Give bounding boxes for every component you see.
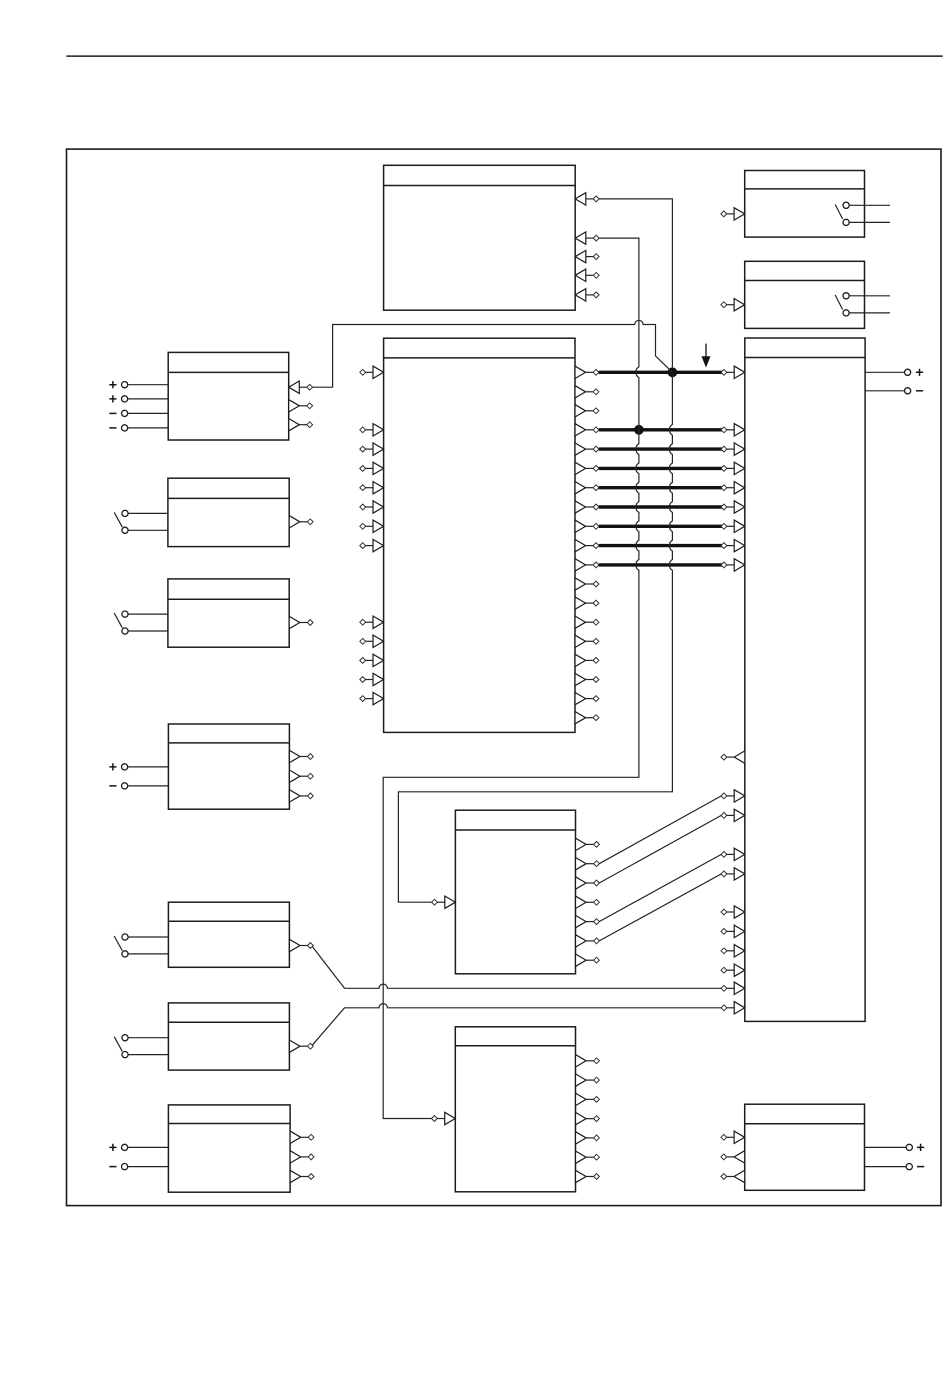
wire: diagonal 2 U3 output to U5 buffer G2 [599,815,721,883]
wire: U1 buffer A2 down vertical x=638.9 with hops over bus 1 and buses 3-9, junction at bus 2, to U4 input [383,238,639,1118]
terminal circle + (U11 input) [109,763,127,770]
switch lever of U13 [114,1037,122,1052]
wire: U1 buffer A1 to junction on bus 1 (vertical x=672.4) [599,199,673,367]
buffer C3 (out of U2, bus row) [575,443,599,455]
wire: U13 output diagonal and run to U5 buffer J2 (hop over x=383.2) [312,1004,722,1046]
switch contact circles of U10 [122,611,128,634]
buffer N1 (out of U4, stub row) [576,1055,600,1067]
buffer G2 (into U5 from U3 diagonal 2) [721,809,745,821]
buffer D1 (out of U2, stub row) [575,386,599,398]
buffer G1 (into U5 from U3 diagonal 1) [721,790,745,802]
buffer N2 (out of U4, stub row) [576,1074,600,1086]
buffer B2 (into U2, left edge) [360,424,384,436]
wire: U8 input lead 3 [128,412,168,414]
buffer E1 (into U5 from bus 1) [721,366,745,378]
buffer H2 (into U5, stub row) [721,925,745,937]
buffer E4 (into U5 from bus 4) [721,462,745,474]
block U2 (main matrix unit) [384,338,575,732]
switch S-A upper contact circle [843,202,849,208]
terminal circle - (U14 input) [109,1164,127,1170]
wire: U15 - output lead [865,1166,907,1168]
terminal circle - (U15 output negative) [906,1164,924,1170]
block U8 (left input unit A) [168,352,289,440]
buffer L1 (out of U3) [576,838,600,850]
buffer R3 (out of U15, pointing left) [721,1170,745,1182]
bus line 8 (U2 to U5) [599,544,722,547]
buffer B4 (into U2, left edge) [360,462,384,474]
terminal circle + (U14 input) [109,1144,127,1151]
wire: U12 lower contact lead [128,953,168,955]
switch S-B upper contact circle [843,293,849,299]
buffer E2 (into U5 from bus 2) [721,424,745,436]
block U10 (left switch unit C) [168,579,289,647]
switch S-A lever [835,205,842,220]
buffer E8 (into U5 from bus 8) [721,539,745,551]
buffer (out of U14 row 2) [290,1151,314,1163]
wire: U14 input lead 1 [128,1146,169,1148]
block U14 (left input unit G) [168,1105,290,1192]
block U1 (top-center unit) [384,165,576,310]
buffer N6 (out of U4, stub row) [576,1151,600,1163]
block U13 (left switch unit F) [168,1003,289,1070]
buffer P (U7 input, left edge) [721,299,745,311]
wire: U7 switch upper line [849,295,890,297]
buffer J1 (into U5 from switch unit E) [721,982,745,994]
buffer P (U6 input, left edge) [721,208,745,220]
switch contact circles of U12 [122,934,128,957]
buffer C7 (out of U2, bus row) [575,520,599,532]
wire: U15 + output lead [865,1146,907,1148]
buffer Q1 (into U8, right edge, pointing left) [289,381,313,393]
buffer B13 (into U2, left edge) [360,692,384,704]
junction dot on bus 2 at x=638.9 [634,425,644,435]
buffer L5 (out of U3) [576,915,600,927]
bus line 9 (U2 to U5) [599,563,722,566]
wire: U11 input lead 2 [128,785,169,787]
block U15 (bottom-right output unit) [745,1104,865,1190]
buffer D10 (out of U2, stub row) [575,712,599,724]
block U3 (mid processor unit) [455,810,575,974]
block U9 (left switch unit B) [168,478,289,546]
buffer N7 (out of U4, stub row) [576,1170,600,1182]
buffer L3 (out of U3) [576,877,600,889]
buffer D4 (out of U2, stub row) [575,597,599,609]
buffer (out of U11 row 1) [289,750,313,762]
block U6 (top-right relay unit A) [745,171,865,238]
wire: diagonal 4 U3 output to U5 buffer G4 [599,874,721,941]
buffer E5 (into U5 from bus 5) [721,482,745,494]
buffer B1 (into U2, left edge) [360,366,384,378]
buffer (out of U11 row 3) [289,790,313,802]
terminal circle - (U8 input 4) [109,425,127,431]
wire: U14 input lead 2 [128,1166,169,1168]
wire: U10 lower contact lead [128,630,168,632]
switch S-B lower contact circle [843,310,849,316]
buffer C5 (out of U2, bus row) [575,482,599,494]
down-arrow pointer above bus 1 [702,344,711,368]
buffer K1 (into U3, left edge) [432,896,456,908]
terminal circle + (U5 output positive) [905,369,924,376]
buffer H3 (into U5, stub row) [721,945,745,957]
buffer G3 (into U5 from U3 diagonal 3) [721,848,745,860]
buffer R2 (out of U15, pointing left) [721,1151,745,1163]
buffer D8 (out of U2, stub row) [575,673,599,685]
wire: diagonal 3 U3 output to U5 buffer G3 [599,854,721,921]
buffer E9 (into U5 from bus 9) [721,559,745,571]
wire: U5 + output lead [865,371,904,373]
wire: U6 switch lower line [849,221,890,223]
buffer D5 (out of U2, stub row) [575,616,599,628]
block U4 (bottom processor unit) [455,1027,575,1192]
buffer D6 (out of U2, stub row) [575,635,599,647]
switch lever of U12 [114,936,122,951]
wire: U13 upper contact lead [128,1037,168,1039]
wire: U12 output diagonal and run to U5 buffer J1 (hop over x=383.2) [312,946,722,988]
buffer (out of U14 row 3) [290,1170,314,1182]
switch contact circles of U13 [122,1035,128,1058]
buffer A4 (into U1, right edge) [575,269,599,281]
junction dot on bus 1 at x=672 [668,367,678,377]
buffer B10 (into U2, left edge) [360,635,384,647]
buffer G4 (into U5 from U3 diagonal 4) [721,868,745,880]
wire: U10 upper contact lead [128,613,168,615]
buffer R1 (into U15, left edge) [721,1131,745,1143]
bus line 5 (U2 to U5) [599,486,722,489]
buffer C4 (out of U2, bus row) [575,462,599,474]
buffer C1 (out of U2, bus row) [575,366,599,378]
terminal circle + (U15 output positive) [906,1144,924,1151]
buffer (out of U9) [289,516,313,528]
buffer N3 (out of U4, stub row) [576,1093,600,1105]
buffer B7 (into U2, left edge) [360,520,384,532]
outer enclosure boundary box [67,149,942,1206]
buffer E7 (into U5 from bus 7) [721,520,745,532]
buffer N5 (out of U4, stub row) [576,1132,600,1144]
terminal circle - (U5 output negative) [905,388,924,394]
buffer C2 (out of U2, bus row) [575,424,599,436]
buffer C8 (out of U2, bus row) [575,539,599,551]
wire: U6 switch upper line [849,204,890,206]
buffer B3 (into U2, left edge) [360,443,384,455]
buffer B6 (into U2, left edge) [360,501,384,513]
buffer (out of U11 row 2) [289,770,313,782]
wire: U5 - output lead [865,390,904,392]
bus line 6 (U2 to U5) [599,505,722,508]
buffer A5 (into U1, right edge) [575,289,599,301]
buffer Q2 (out of U8) [289,400,313,412]
wire: U7 switch lower line [849,312,890,314]
wire: U12 upper contact lead [128,936,168,938]
switch lever of U9 [114,512,122,527]
wire: U8 output row1 up and across to bus-1 junction (hop over x=638.9, corner, 45-degree into dot) [312,320,672,387]
buffer L6 (out of U3) [576,935,600,947]
buffer (out of U14 row 1) [290,1131,314,1143]
buffer D9 (out of U2, stub row) [575,692,599,704]
terminal circle - (U8 input 3) [109,410,127,416]
bus line 3 (U2 to U5) [599,447,722,450]
wire: U8 input lead 2 [128,398,168,400]
buffer F1 (out of U5, left edge, pointing left) [721,751,745,763]
buffer H4 (into U5, stub row) [721,964,745,976]
buffer L2 (out of U3) [576,858,600,870]
wire: diagonal 1 U3 output to U5 buffer G1 [599,796,721,864]
buffer L4 (out of U3) [576,896,600,908]
buffer B9 (into U2, left edge) [360,616,384,628]
buffer Q3 (out of U8) [289,419,313,431]
switch S-A lower contact circle [843,219,849,225]
wire: U13 lower contact lead [128,1054,168,1056]
wire: U9 upper contact lead [128,512,168,514]
buffer L7 (out of U3) [576,954,600,966]
buffer E6 (into U5 from bus 6) [721,501,745,513]
buffer H1 (into U5, stub row) [721,906,745,918]
terminal circle - (U11 input) [109,783,127,789]
buffer B11 (into U2, left edge) [360,654,384,666]
buffer A2 (into U1, right edge) [575,232,599,244]
wire: U9 lower contact lead [128,529,168,531]
buffer B5 (into U2, left edge) [360,482,384,494]
buffer E3 (into U5 from bus 3) [721,443,745,455]
bus line 7 (U2 to U5) [599,525,722,528]
buffer (out of U12) [289,939,313,951]
switch lever of U10 [114,613,122,628]
bus line 1 (U2 to U5) [599,371,722,374]
buffer A3 (into U1, right edge) [575,250,599,262]
buffer (out of U13) [289,1040,313,1052]
buffer D3 (out of U2, stub row) [575,578,599,590]
switch contact circles of U9 [122,510,128,533]
buffer A1 (into U1, right edge) [575,193,599,205]
terminal circle + (U8 input 2) [109,395,127,402]
buffer C6 (out of U2, bus row) [575,501,599,513]
buffer M1 (into U4, left edge) [432,1112,456,1124]
buffer D2 (out of U2, stub row) [575,405,599,417]
buffer B12 (into U2, left edge) [360,673,384,685]
wire: U8 input lead 1 [128,384,168,386]
wire: junction bus1 down vertical x=672.4 with hops over buses 2-9, to U3 input [398,372,672,902]
block U11 (left input unit D) [168,724,289,809]
buffer D7 (out of U2, stub row) [575,654,599,666]
bus line 2 (U2 to U5) [599,428,722,431]
buffer C9 (out of U2, bus row) [575,559,599,571]
wire: U8 input lead 4 [128,427,168,429]
buffer J2 (into U5 from switch unit F) [721,1002,745,1014]
terminal circle + (U8 input 1) [109,381,127,388]
buffer B8 (into U2, left edge) [360,539,384,551]
block U12 (left switch unit E) [168,902,289,967]
block U7 (top-right relay unit B) [745,261,865,328]
buffer N4 (out of U4, stub row) [576,1112,600,1124]
wire: U11 input lead 1 [128,766,169,768]
buffer (out of U10) [289,616,313,628]
bus line 4 (U2 to U5) [599,467,722,470]
switch S-B lever [835,295,842,310]
block U5 (tall right unit) [745,338,865,1021]
